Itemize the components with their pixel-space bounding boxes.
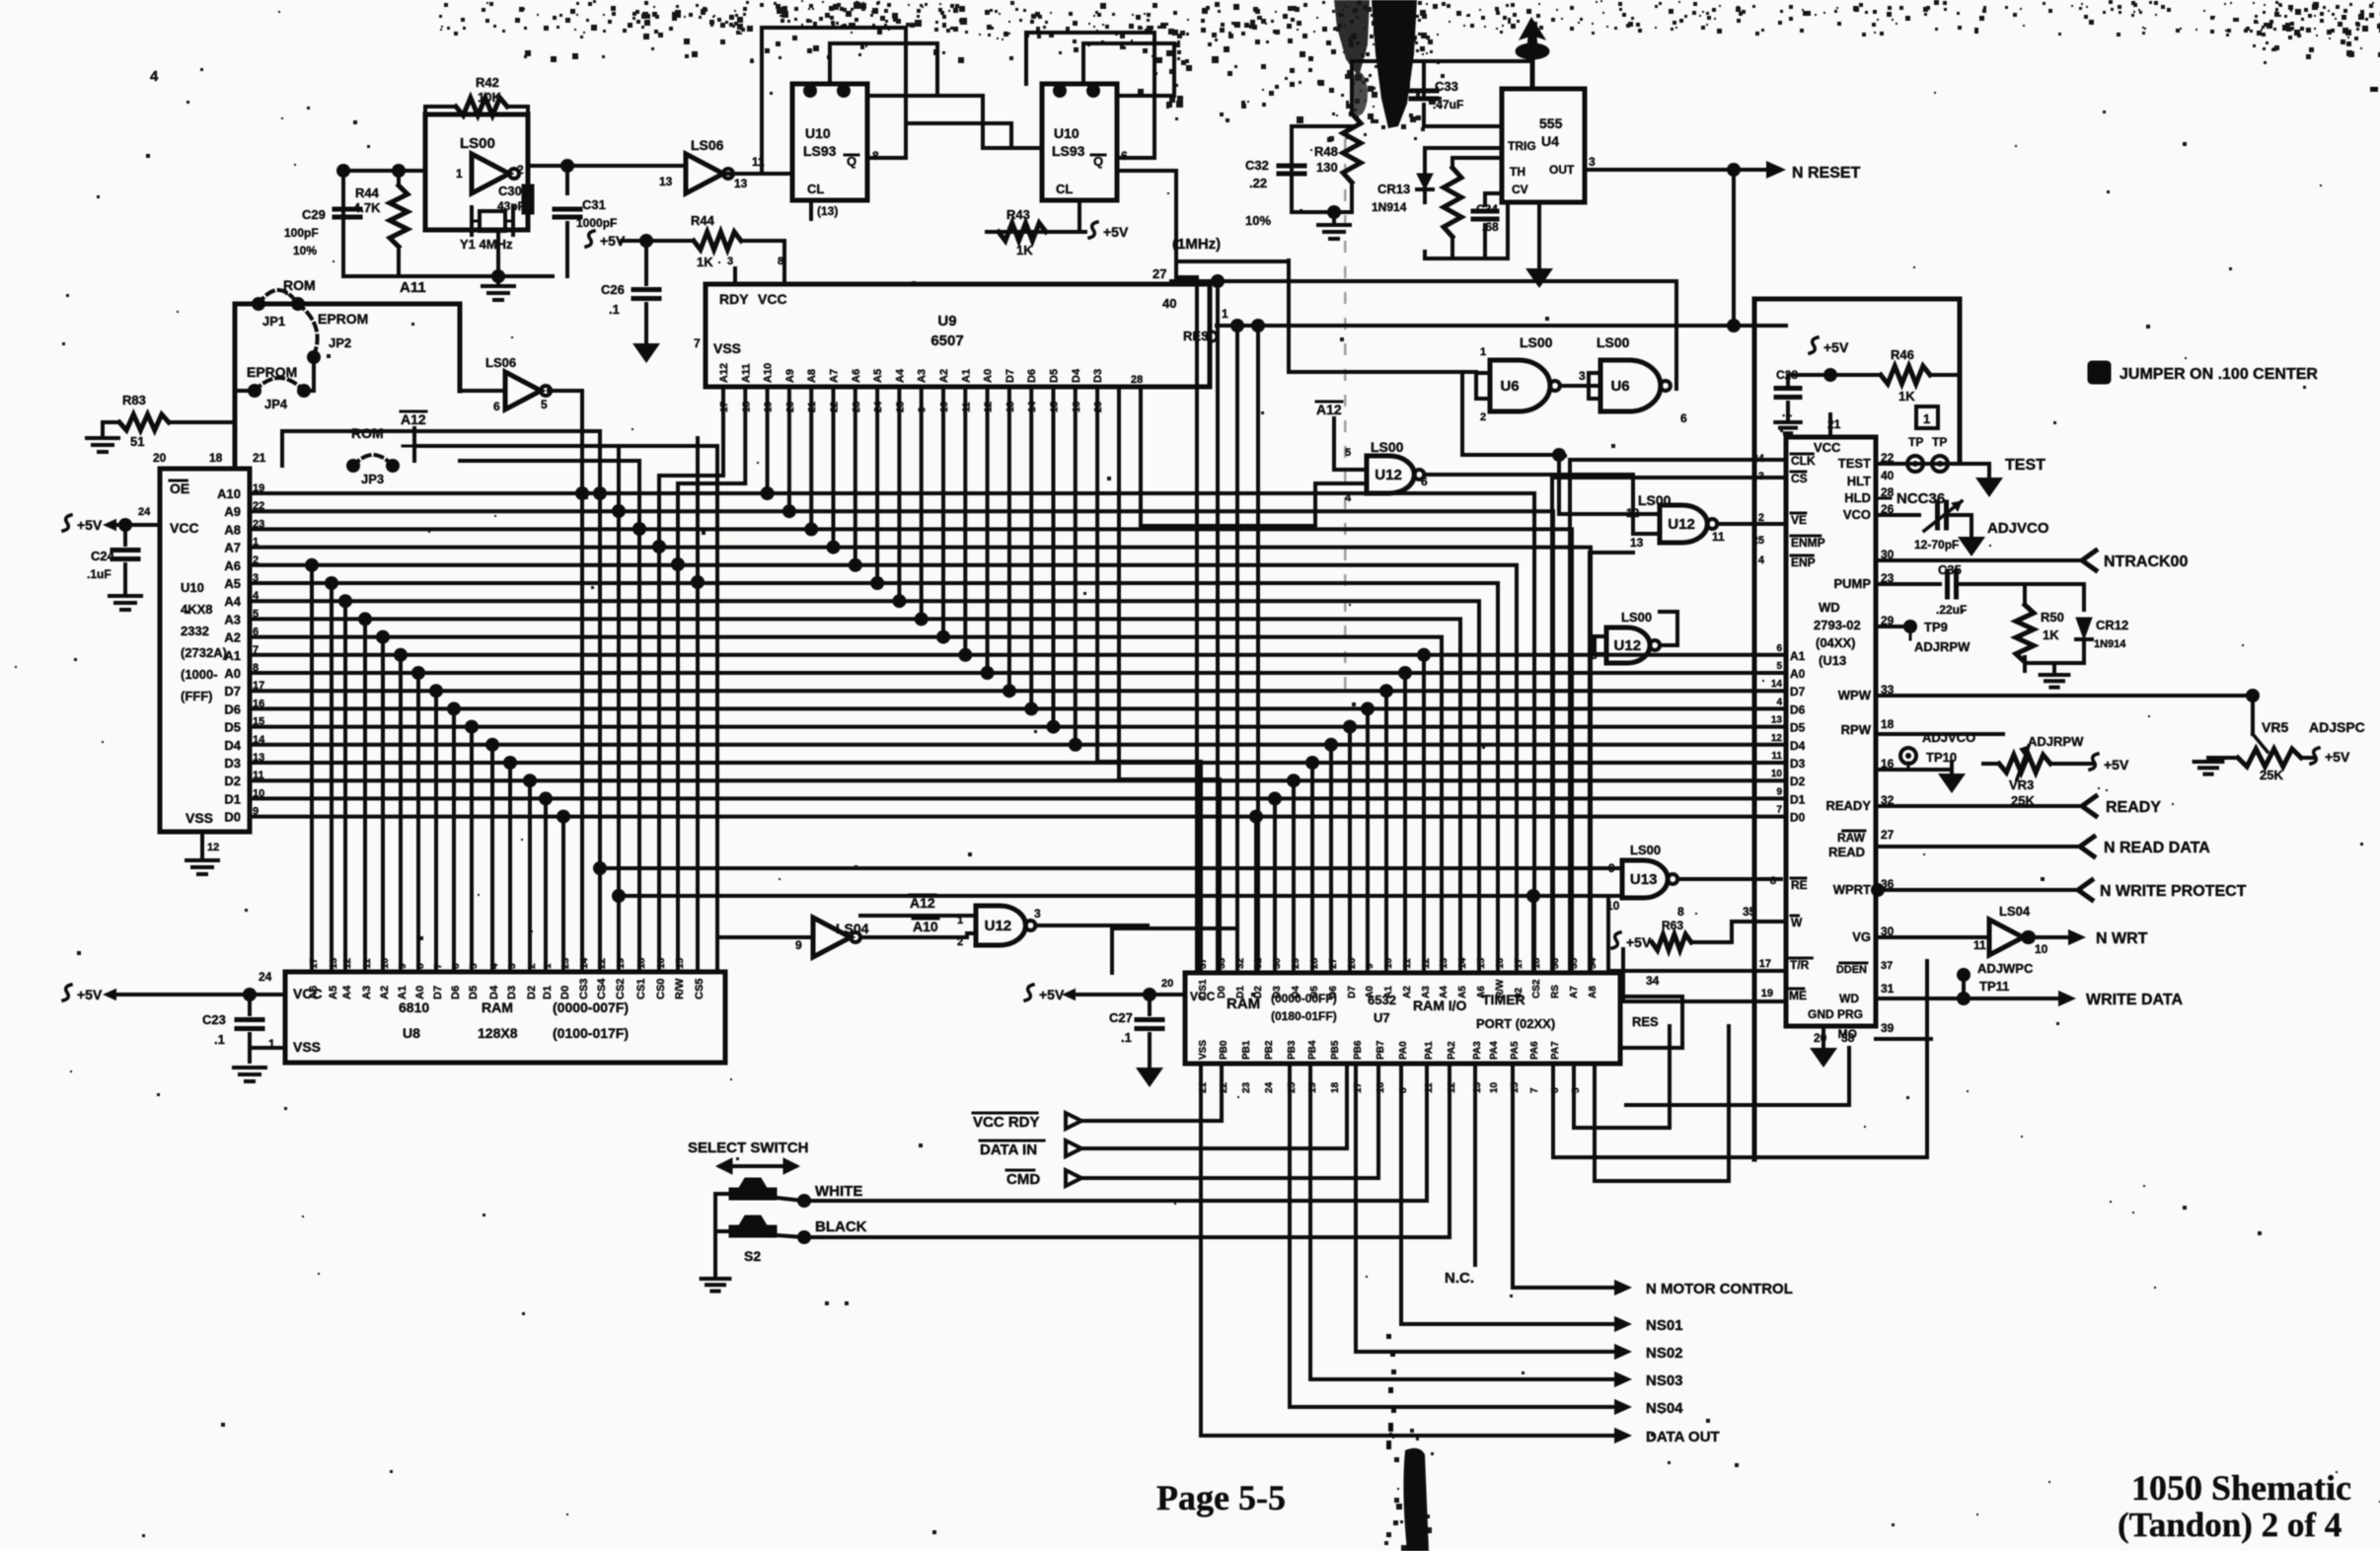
svg-text:TEST: TEST — [1838, 456, 1871, 471]
svg-text:40: 40 — [1881, 469, 1895, 482]
svg-text:A5: A5 — [872, 369, 884, 383]
svg-text:1N914: 1N914 — [1372, 200, 1407, 214]
svg-text:D0: D0 — [1217, 986, 1227, 998]
svg-text:TP: TP — [1932, 435, 1947, 449]
svg-text:C33: C33 — [1435, 79, 1458, 94]
svg-text:WD: WD — [1819, 600, 1840, 615]
svg-text:VCC: VCC — [1814, 440, 1841, 455]
svg-text:A12: A12 — [718, 363, 730, 383]
svg-text:RES: RES — [1632, 1014, 1659, 1029]
svg-text:DATA IN: DATA IN — [980, 1142, 1037, 1158]
svg-text:PB7: PB7 — [1376, 1040, 1386, 1060]
svg-text:A4: A4 — [894, 368, 906, 383]
svg-text:LS00: LS00 — [460, 135, 495, 152]
svg-text:N RESET: N RESET — [1792, 165, 1861, 182]
svg-text:ADJWPC: ADJWPC — [1977, 961, 2034, 976]
svg-text:D3: D3 — [1092, 369, 1104, 383]
svg-text:OUT: OUT — [1549, 163, 1575, 177]
svg-text:ADJRPW: ADJRPW — [2028, 734, 2084, 749]
svg-text:D1: D1 — [224, 791, 241, 806]
svg-text:21: 21 — [253, 451, 266, 465]
svg-text:19: 19 — [1761, 988, 1773, 999]
svg-text:25K: 25K — [2260, 768, 2283, 782]
svg-text:A11: A11 — [740, 363, 752, 383]
svg-text:02: 02 — [1514, 987, 1525, 998]
svg-text:A0: A0 — [983, 369, 995, 383]
svg-text:43pF: 43pF — [497, 199, 525, 213]
svg-text:D3: D3 — [506, 986, 518, 999]
svg-text:N WRT: N WRT — [2096, 930, 2148, 947]
svg-text:VSS: VSS — [713, 340, 741, 356]
svg-text:A1: A1 — [1383, 986, 1394, 998]
svg-text:D3: D3 — [1272, 986, 1283, 998]
svg-text:ENMP: ENMP — [1791, 536, 1825, 550]
svg-text:(0100-017F): (0100-017F) — [553, 1025, 629, 1041]
svg-text:DATA OUT: DATA OUT — [1646, 1429, 1720, 1445]
svg-text:PB4: PB4 — [1307, 1040, 1318, 1060]
svg-text:27: 27 — [1153, 266, 1166, 281]
svg-text:PA2: PA2 — [1447, 1041, 1457, 1060]
svg-text:A5: A5 — [1457, 986, 1468, 998]
svg-text:+5V: +5V — [2104, 757, 2129, 773]
svg-text:LS93: LS93 — [1052, 143, 1085, 159]
svg-text:9: 9 — [1776, 786, 1782, 797]
svg-text:D6: D6 — [450, 986, 462, 999]
svg-text:ADJVCO: ADJVCO — [1922, 730, 1975, 745]
svg-text:Page 5-5: Page 5-5 — [1156, 1478, 1286, 1517]
svg-text:+5V: +5V — [77, 517, 103, 533]
svg-text:4: 4 — [150, 68, 159, 85]
svg-text:BLACK: BLACK — [815, 1219, 867, 1235]
svg-text:CS3: CS3 — [578, 979, 590, 999]
svg-text:VCC: VCC — [170, 520, 199, 536]
svg-text:A6: A6 — [308, 986, 320, 999]
svg-text:28: 28 — [1131, 374, 1143, 386]
svg-text:R48: R48 — [1314, 144, 1338, 159]
svg-text:C32: C32 — [1245, 158, 1269, 173]
svg-text:VCC RDY: VCC RDY — [973, 1114, 1040, 1131]
svg-text:CS0: CS0 — [655, 979, 667, 999]
svg-text:A5: A5 — [224, 576, 241, 591]
svg-text:1: 1 — [1480, 346, 1486, 358]
svg-text:A4: A4 — [224, 594, 241, 609]
svg-text:LS00: LS00 — [1371, 439, 1404, 455]
svg-text:9: 9 — [795, 938, 802, 952]
svg-text:12: 12 — [1771, 733, 1783, 744]
svg-text:5: 5 — [541, 398, 548, 411]
svg-text:PB3: PB3 — [1287, 1040, 1298, 1060]
svg-text:33: 33 — [1217, 957, 1227, 969]
svg-text:PA0: PA0 — [1398, 1041, 1409, 1060]
svg-text:A12: A12 — [401, 411, 426, 427]
svg-text:1K: 1K — [1898, 389, 1915, 404]
svg-text:1050 Shematic: 1050 Shematic — [2131, 1468, 2351, 1508]
svg-text:WHITE: WHITE — [815, 1183, 862, 1200]
svg-text:U10: U10 — [805, 125, 831, 141]
svg-text:C28: C28 — [1776, 368, 1798, 382]
svg-text:T/R: T/R — [1790, 958, 1810, 972]
svg-text:9: 9 — [1365, 963, 1376, 969]
svg-text:D6: D6 — [1328, 986, 1339, 998]
svg-text:1K: 1K — [1016, 243, 1033, 258]
svg-text:.47uF: .47uF — [1433, 98, 1463, 111]
svg-text:12: 12 — [207, 842, 219, 853]
svg-text:VSS: VSS — [186, 810, 213, 826]
svg-text:A2: A2 — [224, 630, 241, 645]
svg-text:1: 1 — [456, 167, 463, 181]
svg-text:6: 6 — [1421, 475, 1428, 488]
svg-text:CV: CV — [1512, 183, 1528, 196]
svg-text:D1: D1 — [542, 986, 554, 999]
svg-text:6: 6 — [1776, 643, 1782, 654]
svg-text:A3: A3 — [224, 612, 241, 627]
svg-text:LS00: LS00 — [1597, 334, 1630, 350]
svg-text:NS02: NS02 — [1646, 1345, 1683, 1362]
svg-text:7: 7 — [1529, 1087, 1540, 1093]
svg-text:6810: 6810 — [399, 999, 429, 1015]
svg-text:D4: D4 — [1790, 739, 1806, 753]
svg-text:TP9: TP9 — [1924, 620, 1948, 634]
svg-text:D4: D4 — [1071, 368, 1082, 383]
svg-text:CS4: CS4 — [596, 978, 608, 999]
svg-text:30: 30 — [1272, 957, 1283, 969]
svg-text:.1: .1 — [1121, 1030, 1132, 1045]
svg-text:A7: A7 — [1569, 986, 1580, 998]
svg-text:10: 10 — [1383, 957, 1394, 969]
svg-text:A10: A10 — [763, 363, 775, 383]
svg-text:TH: TH — [1510, 165, 1525, 179]
svg-text:D7: D7 — [432, 986, 444, 999]
svg-text:24: 24 — [1264, 1081, 1275, 1093]
svg-text:N.C.: N.C. — [1445, 1270, 1474, 1287]
svg-text:DDEN: DDEN — [1836, 964, 1867, 976]
svg-text:RDY: RDY — [719, 291, 749, 307]
svg-text:A0: A0 — [1790, 667, 1806, 681]
svg-text:18: 18 — [1531, 957, 1542, 969]
svg-text:RAW: RAW — [1837, 831, 1866, 845]
svg-text:VSS: VSS — [293, 1039, 321, 1055]
svg-text:D0: D0 — [224, 810, 241, 825]
svg-text:A11: A11 — [400, 279, 426, 296]
svg-text:17: 17 — [1514, 957, 1525, 969]
svg-text:R63: R63 — [1662, 919, 1683, 932]
svg-text:A6: A6 — [224, 558, 241, 573]
svg-text:11: 11 — [1973, 938, 1986, 952]
svg-text:D2: D2 — [526, 986, 538, 999]
svg-text:WPRT: WPRT — [1833, 882, 1871, 897]
svg-text:A1: A1 — [224, 648, 241, 663]
svg-text:10%: 10% — [1245, 213, 1271, 228]
svg-text:D7: D7 — [1004, 369, 1016, 383]
svg-text:(Tandon) 2 of 4: (Tandon) 2 of 4 — [2118, 1506, 2342, 1544]
svg-text:GND PRG: GND PRG — [1808, 1007, 1863, 1021]
svg-text:11: 11 — [1771, 751, 1782, 762]
svg-text:12: 12 — [1421, 957, 1432, 969]
svg-text:TRIG: TRIG — [1508, 139, 1536, 153]
svg-text:8: 8 — [1770, 875, 1776, 887]
svg-text:A6: A6 — [1476, 986, 1487, 998]
svg-text:R42: R42 — [476, 75, 499, 90]
svg-text:VR5: VR5 — [2262, 719, 2288, 735]
svg-text:40: 40 — [1162, 296, 1176, 311]
svg-text:READY: READY — [1825, 798, 1871, 813]
svg-text:JP4: JP4 — [264, 397, 288, 411]
svg-text:PB6: PB6 — [1353, 1040, 1364, 1060]
svg-text:C31: C31 — [582, 197, 606, 212]
svg-text:9: 9 — [1608, 861, 1615, 875]
svg-text:8: 8 — [1677, 905, 1684, 919]
svg-text:16: 16 — [1495, 957, 1506, 969]
svg-text:2: 2 — [517, 163, 524, 177]
svg-text:A2: A2 — [1402, 986, 1413, 998]
svg-text:JP1: JP1 — [262, 314, 285, 329]
svg-text:1: 1 — [1222, 307, 1228, 321]
svg-text:D2: D2 — [1790, 775, 1806, 788]
svg-text:NS04: NS04 — [1646, 1400, 1683, 1417]
svg-text:2: 2 — [957, 936, 963, 948]
svg-text:18: 18 — [209, 451, 223, 465]
svg-text:PA6: PA6 — [1529, 1041, 1540, 1060]
svg-text:10: 10 — [1771, 769, 1783, 779]
svg-text:RPW: RPW — [1841, 722, 1872, 737]
svg-text:A0: A0 — [224, 666, 241, 681]
svg-text:13: 13 — [1771, 715, 1783, 726]
svg-text:A1: A1 — [1790, 649, 1806, 663]
svg-text:18: 18 — [1330, 1081, 1341, 1093]
svg-text:10: 10 — [1489, 1081, 1500, 1093]
svg-text:.22: .22 — [1249, 176, 1267, 190]
svg-text:(FFF): (FFF) — [181, 689, 212, 703]
svg-text:R44: R44 — [355, 185, 380, 200]
svg-text:1: 1 — [957, 915, 963, 926]
svg-text:24: 24 — [259, 970, 272, 984]
svg-text:A12: A12 — [1316, 402, 1342, 417]
svg-text:A3: A3 — [361, 986, 373, 999]
svg-text:JUMPER ON .100 CENTER: JUMPER ON .100 CENTER — [2120, 366, 2318, 383]
svg-text:10K: 10K — [478, 90, 501, 105]
svg-text:N READ DATA: N READ DATA — [2104, 840, 2210, 856]
svg-text:C35: C35 — [1938, 562, 1962, 577]
svg-text:VR3: VR3 — [2009, 777, 2034, 792]
svg-text:RAM I/O: RAM I/O — [1413, 997, 1467, 1013]
svg-text:D4: D4 — [1291, 986, 1302, 998]
svg-text:D3: D3 — [1790, 757, 1806, 771]
svg-text:ADJSPC: ADJSPC — [2309, 719, 2365, 735]
svg-text:(13): (13) — [817, 204, 838, 218]
svg-text:PA5: PA5 — [1510, 1041, 1521, 1060]
svg-text:NS01: NS01 — [1646, 1317, 1683, 1334]
svg-text:RS: RS — [1550, 985, 1561, 998]
svg-text:PB1: PB1 — [1241, 1040, 1252, 1060]
svg-text:3: 3 — [1579, 369, 1586, 383]
svg-text:D1: D1 — [1235, 986, 1246, 998]
svg-text:LS00: LS00 — [1630, 843, 1661, 857]
svg-text:PORT (02XX): PORT (02XX) — [1476, 1016, 1555, 1031]
svg-text:1N914: 1N914 — [2094, 638, 2126, 650]
svg-text:WD: WD — [1839, 992, 1859, 1005]
svg-text:C29: C29 — [302, 207, 326, 222]
svg-text:20: 20 — [153, 451, 167, 465]
svg-text:A1: A1 — [397, 986, 409, 999]
svg-text:JP2: JP2 — [329, 335, 351, 350]
svg-text:LS04: LS04 — [1999, 904, 2031, 919]
svg-text:C30: C30 — [498, 184, 522, 198]
svg-text:4KX8: 4KX8 — [181, 602, 213, 617]
svg-text:D3: D3 — [224, 756, 241, 771]
svg-text:A3: A3 — [917, 369, 929, 383]
svg-text:LS06: LS06 — [691, 137, 724, 153]
svg-text:18: 18 — [1881, 717, 1895, 731]
svg-text:EPROM: EPROM — [318, 311, 368, 327]
svg-text:39: 39 — [1881, 1021, 1895, 1035]
svg-text:A9: A9 — [784, 369, 796, 383]
svg-text:14: 14 — [1457, 957, 1468, 969]
svg-text:RAM: RAM — [482, 999, 513, 1015]
svg-text:U12: U12 — [1614, 637, 1642, 654]
svg-text:NS03: NS03 — [1646, 1372, 1683, 1389]
svg-text:U12: U12 — [985, 918, 1012, 934]
svg-text:CR13: CR13 — [1377, 182, 1410, 196]
svg-text:VCC: VCC — [758, 291, 787, 307]
svg-text:24: 24 — [1752, 453, 1765, 465]
svg-text:W: W — [1791, 916, 1803, 929]
svg-text:JP3: JP3 — [361, 472, 384, 486]
svg-text:32: 32 — [1235, 957, 1246, 969]
svg-text:+5V: +5V — [1626, 934, 1652, 950]
svg-text:D5: D5 — [468, 986, 480, 999]
svg-text:D6: D6 — [224, 702, 241, 716]
svg-text:D5: D5 — [1790, 721, 1806, 735]
svg-text:U13: U13 — [1630, 871, 1658, 888]
svg-text:13: 13 — [1630, 536, 1644, 550]
svg-text:A8: A8 — [806, 369, 818, 383]
svg-text:5: 5 — [1776, 661, 1782, 672]
svg-text:D5: D5 — [224, 720, 241, 735]
svg-text:+5V: +5V — [1039, 987, 1065, 1002]
svg-text:2: 2 — [1758, 512, 1764, 524]
svg-text:C34: C34 — [1476, 202, 1498, 216]
svg-text:D0: D0 — [1790, 811, 1806, 825]
svg-text:1000pF: 1000pF — [576, 216, 617, 230]
svg-text:24: 24 — [138, 506, 151, 518]
svg-text:Y1 4MHz: Y1 4MHz — [460, 237, 513, 252]
svg-text:25: 25 — [1752, 535, 1764, 547]
svg-text:CS: CS — [1791, 472, 1808, 485]
svg-text:HLT: HLT — [1847, 474, 1871, 488]
svg-text:OE: OE — [170, 480, 189, 496]
svg-text:A0: A0 — [414, 986, 426, 999]
svg-text:+5V: +5V — [1823, 339, 1849, 355]
svg-text:HLD: HLD — [1844, 490, 1871, 505]
svg-text:A6: A6 — [851, 369, 862, 383]
svg-text:A2: A2 — [379, 986, 391, 999]
svg-text:4.7K: 4.7K — [353, 200, 381, 215]
svg-text:TP11: TP11 — [1979, 979, 2009, 994]
svg-text:7: 7 — [1776, 805, 1782, 816]
svg-text:ADJVCO: ADJVCO — [1987, 520, 2049, 537]
svg-text:3: 3 — [727, 256, 733, 267]
svg-text:31: 31 — [1881, 982, 1895, 996]
svg-text:37: 37 — [1198, 957, 1209, 969]
svg-text:C27: C27 — [1109, 1010, 1133, 1025]
svg-text:+5V: +5V — [2325, 749, 2350, 765]
svg-text:128X8: 128X8 — [478, 1025, 518, 1041]
svg-text:R/W: R/W — [674, 978, 686, 999]
svg-text:LS93: LS93 — [803, 143, 837, 159]
svg-text:3: 3 — [1589, 155, 1596, 169]
svg-text:U9: U9 — [937, 313, 956, 330]
svg-text:.1uF: .1uF — [87, 567, 112, 581]
svg-text:5: 5 — [1345, 447, 1351, 459]
svg-text:VSS: VSS — [1198, 1040, 1209, 1060]
svg-text:LS00: LS00 — [1621, 610, 1652, 625]
svg-text:D6: D6 — [1790, 702, 1806, 716]
svg-text:34: 34 — [1588, 957, 1599, 969]
svg-text:D2: D2 — [224, 774, 241, 788]
svg-text:1: 1 — [1923, 411, 1930, 426]
svg-text:.1: .1 — [214, 1032, 225, 1047]
svg-text:.22uF: .22uF — [1936, 603, 1967, 617]
svg-text:N MOTOR CONTROL: N MOTOR CONTROL — [1646, 1281, 1793, 1297]
svg-text:CL: CL — [1056, 182, 1073, 196]
svg-text:WPW: WPW — [1838, 688, 1872, 702]
svg-text:13: 13 — [659, 175, 673, 188]
svg-text:TEST: TEST — [2005, 457, 2045, 474]
svg-text:4: 4 — [1345, 492, 1352, 504]
svg-text:A9: A9 — [224, 504, 241, 519]
svg-text:11: 11 — [1402, 958, 1413, 969]
svg-text:27: 27 — [1881, 828, 1895, 842]
svg-text:D5: D5 — [1309, 986, 1320, 998]
svg-text:E: E — [2093, 366, 2102, 382]
svg-text:3: 3 — [1758, 471, 1764, 482]
svg-text:PA3: PA3 — [1472, 1041, 1483, 1060]
svg-text:A5: A5 — [328, 986, 339, 999]
svg-text:D0: D0 — [559, 986, 571, 999]
svg-text:MO: MO — [1838, 1027, 1857, 1041]
svg-text:LS00: LS00 — [1520, 334, 1553, 350]
svg-text:6: 6 — [493, 400, 500, 413]
svg-text:PB0: PB0 — [1219, 1040, 1229, 1060]
svg-text:U6: U6 — [1500, 378, 1519, 395]
svg-text:(0000-007F): (0000-007F) — [553, 999, 629, 1015]
svg-text:ME: ME — [1789, 989, 1807, 1002]
svg-text:1K: 1K — [2043, 628, 2059, 642]
svg-text:S2: S2 — [744, 1248, 761, 1264]
svg-text:27: 27 — [1328, 957, 1339, 969]
svg-text:10: 10 — [2035, 942, 2048, 956]
svg-text:D7: D7 — [224, 684, 241, 699]
svg-text:U6: U6 — [1610, 378, 1629, 395]
svg-text:A7: A7 — [829, 369, 841, 383]
svg-text:SELECT SWITCH: SELECT SWITCH — [688, 1140, 809, 1156]
svg-text:130: 130 — [1316, 160, 1338, 175]
svg-text:PB5: PB5 — [1330, 1040, 1341, 1060]
svg-text:A1: A1 — [960, 369, 972, 383]
svg-text:PB2: PB2 — [1264, 1040, 1275, 1060]
svg-text:D4: D4 — [224, 738, 241, 753]
svg-text:R44: R44 — [691, 213, 715, 228]
svg-text:CLK: CLK — [1791, 454, 1816, 468]
svg-text:D1: D1 — [1790, 792, 1806, 806]
svg-text:READ: READ — [1828, 845, 1865, 859]
svg-text:51: 51 — [130, 434, 144, 449]
svg-text:A8: A8 — [224, 522, 241, 537]
svg-text:20: 20 — [1161, 978, 1173, 990]
svg-text:CS1: CS1 — [1198, 979, 1209, 998]
svg-text:(1MHz): (1MHz) — [1172, 236, 1221, 253]
svg-text:N WRITE PROTECT: N WRITE PROTECT — [2100, 883, 2247, 900]
